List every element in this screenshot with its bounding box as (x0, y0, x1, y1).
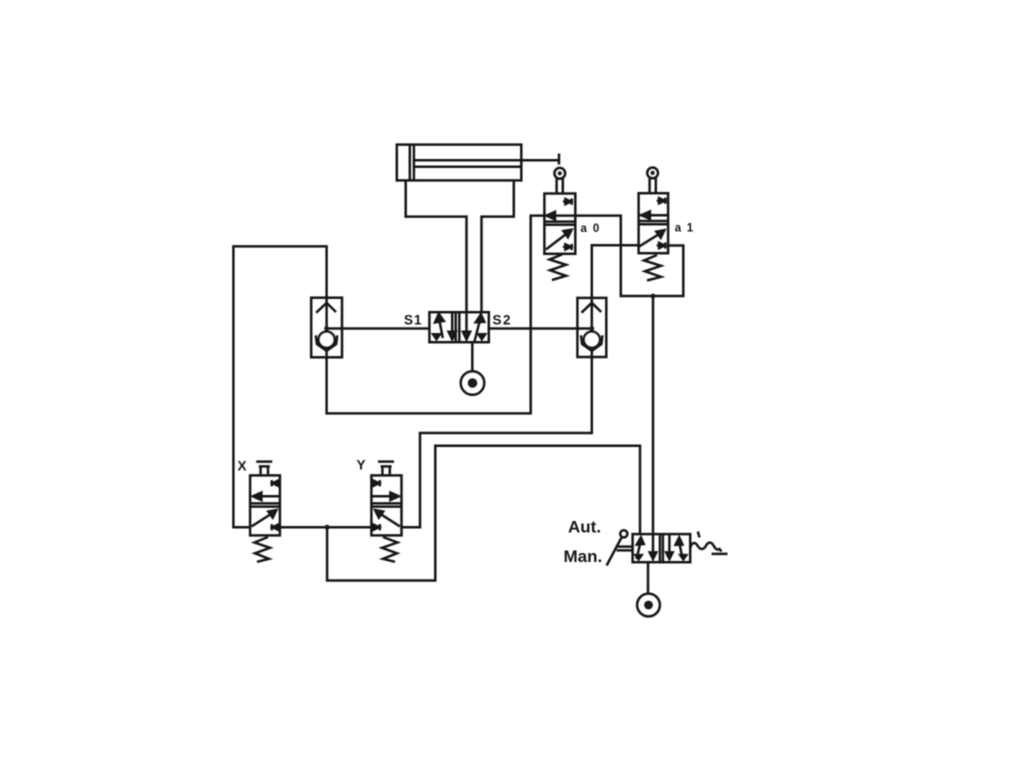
valve a0 body (544, 194, 575, 254)
wire selector valve supply port (647, 562, 650, 594)
valve a1 bottom-right port arrow (657, 242, 666, 248)
valve X body (250, 475, 280, 535)
check valve CV2 ball (584, 332, 600, 348)
pressure source P2 (637, 594, 660, 617)
wire V1 supply port (471, 342, 474, 371)
cylinder A (double-acting) body (397, 145, 522, 181)
valve a0 top-right port arrow (563, 199, 572, 205)
wire S2 pilot line (489, 327, 592, 330)
piston rod of cylinder A (414, 160, 521, 167)
check valve CV2 seat (581, 335, 602, 351)
valve V1 left cell crossed flow arrow (435, 314, 444, 338)
valve V1 right cell diagonal flow arrow (475, 314, 485, 341)
svg-text:X: X (238, 459, 247, 474)
check valve CV2 chevron (582, 303, 602, 313)
valve a0 cell divider (544, 222, 575, 225)
wire S1 pilot line (327, 327, 430, 330)
valve a1 return spring (644, 255, 661, 281)
svg-text:a 1: a 1 (675, 223, 695, 235)
check valve CV1 ball (319, 332, 335, 348)
wire top-left: CV1 top to X valve left port (233, 246, 326, 527)
valve X return spring (255, 537, 271, 562)
selector valve lever knob (620, 530, 627, 537)
selector valve left cell down arrow (650, 534, 657, 559)
valve a1 cell divider (639, 221, 669, 224)
valve V1 right cell blocked port (478, 334, 485, 339)
svg-text:S2: S2 (493, 312, 513, 327)
valve V1 cell divider (456, 312, 460, 342)
selector valve Aut-Man body (633, 534, 691, 562)
pressure source P1 (461, 371, 485, 395)
selector valve left cell diagonal arrow (637, 537, 644, 559)
selector valve lever linkage (617, 547, 633, 551)
valve Y top cell flow arrow (371, 493, 398, 501)
valve V1 main 4/2 impulse valve body (429, 312, 488, 342)
wire junction down to selector valve (652, 296, 655, 534)
wire CV1 bottom to valve a0 left port (327, 216, 545, 414)
valve a1 bottom cell diagonal arrow (639, 230, 664, 246)
node S2 junction dot (589, 326, 594, 331)
valve a0 bottom-right port arrow (563, 244, 572, 250)
piston of cylinder A (410, 145, 414, 181)
svg-text:S1: S1 (404, 312, 423, 327)
valve a0 return spring (550, 255, 567, 281)
check valve CV1 chevron (316, 303, 336, 313)
node X-Y junction dot (325, 525, 330, 530)
valve X top-right port arrow (272, 480, 280, 486)
svg-text:Man.: Man. (564, 547, 603, 566)
valve Y bottom-left blocked port (374, 524, 380, 530)
valve a1 top cell flow arrow (639, 211, 669, 219)
check valve CV1 lower stub (325, 349, 328, 358)
wire shuttle output to selector valve (327, 446, 640, 581)
valve Y push button (378, 462, 394, 476)
rod actuation line to valve a0 (521, 154, 559, 165)
valve a0 bottom cell diagonal arrow (546, 230, 572, 250)
valve Y top-left port arrow (371, 480, 379, 486)
node S1 junction dot (324, 326, 329, 331)
selector valve right cell down arrow (666, 534, 673, 559)
valve X cell divider (250, 503, 280, 506)
valve Y bottom cell diagonal arrow (375, 510, 400, 526)
svg-text:Y: Y (357, 458, 366, 473)
check valve CV2 body (577, 298, 606, 357)
selector valve right cell blocked port (680, 555, 686, 559)
valve Y cell divider (371, 503, 401, 506)
valve X bottom-right blocked port (272, 524, 278, 530)
node junction a0-line dot (651, 294, 656, 299)
selector valve right cell diagonal arrow (676, 537, 683, 558)
check valve CV1 body (311, 298, 342, 358)
valve a0 stem (557, 179, 563, 194)
selector valve spring wavy (690, 532, 727, 554)
selector valve cell divider (660, 534, 663, 562)
wire CV2 top to valve a1 inlet (592, 245, 639, 298)
valve V1 right cell down flow arrow (463, 312, 470, 339)
valve X bottom cell diagonal arrow (252, 510, 277, 526)
valve V1 left cell blocked port (433, 334, 440, 339)
wire cylinder left port to valve V1 port A (406, 180, 467, 312)
valve a1 stem (650, 178, 656, 193)
selector valve lever arm (607, 537, 622, 566)
check valve CV2 flow line (591, 298, 594, 333)
valve Y return spring (382, 537, 398, 562)
wire a0 outlet to a1 inlet and down (575, 216, 683, 296)
valve X push button (256, 462, 272, 476)
valve a0 roller (554, 168, 565, 179)
valve Y body (371, 475, 401, 535)
valve a0 top cell flow arrow (544, 212, 575, 220)
valve X top cell flow arrow (253, 493, 280, 501)
svg-text:Aut.: Aut. (568, 518, 601, 537)
check valve CV1 seat (316, 335, 337, 351)
valve V1 left cell exhaust arrow (449, 312, 456, 339)
svg-text:a 0: a 0 (581, 223, 601, 235)
valve a1 top-right port arrow (657, 198, 666, 204)
valve a1 roller (647, 168, 658, 179)
wire X outlet to Y inlet (280, 526, 372, 529)
valve a1 body (639, 193, 669, 253)
wire cylinder right port to valve V1 port B (482, 180, 514, 312)
check valve CV2 lower stub (591, 349, 594, 357)
wire CV2 bottom to valve Y right port (402, 357, 592, 527)
check valve CV1 flow line (325, 298, 328, 333)
selector valve left cell blocked port (636, 555, 642, 559)
